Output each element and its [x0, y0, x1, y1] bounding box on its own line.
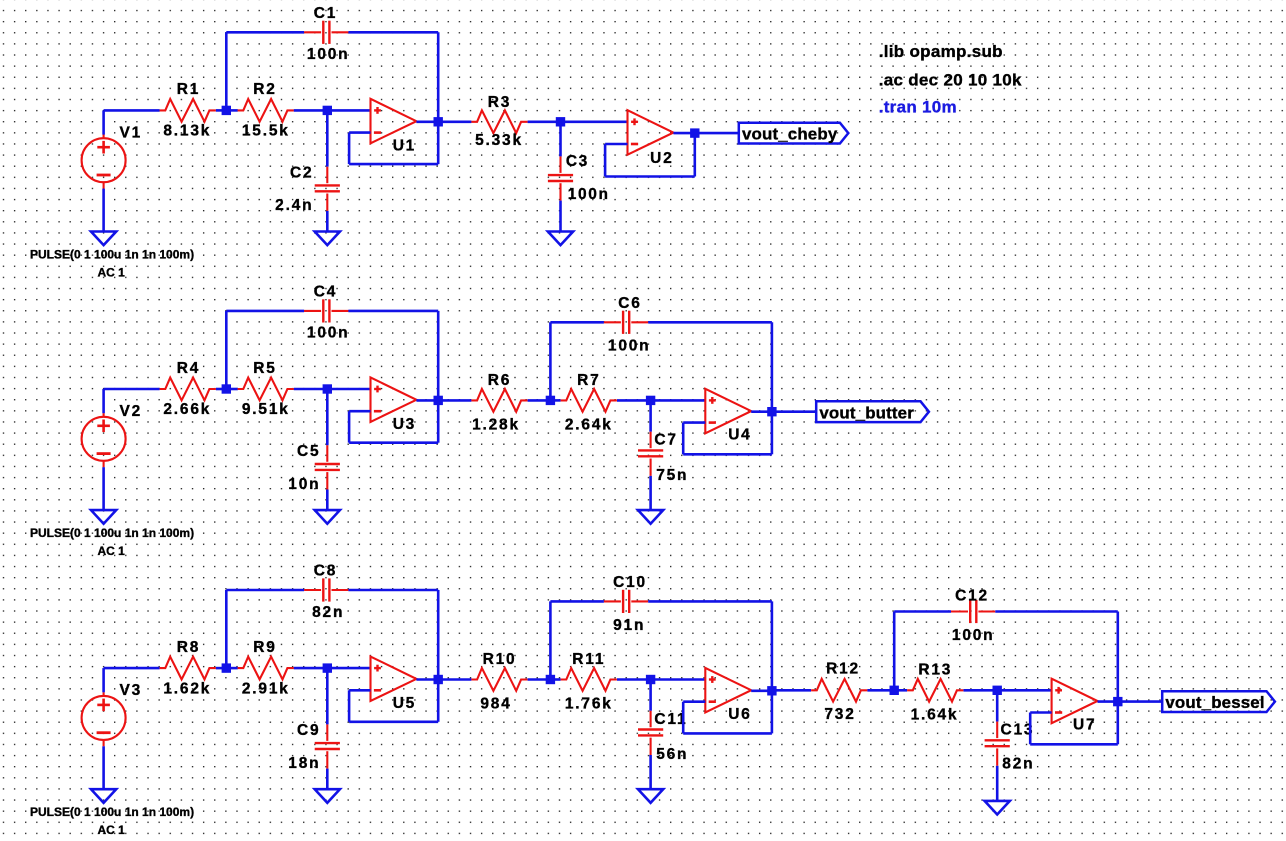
svg-text:R7: R7 — [577, 372, 600, 389]
svg-text:2.91k: 2.91k — [242, 680, 290, 697]
svg-text:R4: R4 — [177, 360, 200, 377]
svg-text:18n: 18n — [288, 755, 320, 772]
svg-text:vout_bessel: vout_bessel — [1165, 693, 1264, 712]
svg-text:R6: R6 — [488, 372, 511, 389]
svg-text:U4: U4 — [728, 427, 751, 444]
svg-text:PULSE(0 1 100u 1n 1n 100m): PULSE(0 1 100u 1n 1n 100m) — [30, 805, 194, 819]
svg-text:2.4n: 2.4n — [275, 197, 313, 214]
svg-text:V1: V1 — [120, 125, 143, 142]
svg-text:PULSE(0 1 100u 1n 1n 100m): PULSE(0 1 100u 1n 1n 100m) — [30, 526, 194, 540]
svg-text:PULSE(0 1 100u 1n 1n 100m): PULSE(0 1 100u 1n 1n 100m) — [30, 248, 194, 262]
svg-text:U5: U5 — [393, 695, 416, 712]
svg-text:1.28k: 1.28k — [472, 416, 520, 433]
svg-text:U7: U7 — [1073, 717, 1096, 734]
svg-text:C2: C2 — [290, 165, 313, 182]
svg-text:82n: 82n — [1002, 755, 1034, 772]
svg-text:75n: 75n — [656, 467, 688, 484]
svg-text:C5: C5 — [297, 443, 320, 460]
svg-text:C7: C7 — [654, 432, 677, 449]
svg-text:C9: C9 — [297, 722, 320, 739]
svg-text:R1: R1 — [177, 81, 200, 98]
svg-text:U3: U3 — [393, 416, 416, 433]
svg-text:82n: 82n — [312, 604, 344, 621]
svg-text:C1: C1 — [314, 5, 337, 22]
svg-text:U1: U1 — [393, 138, 416, 155]
svg-text:R12: R12 — [826, 660, 860, 677]
svg-text:R3: R3 — [488, 94, 511, 111]
svg-text:R5: R5 — [253, 360, 276, 377]
svg-text:.tran 10m: .tran 10m — [879, 98, 957, 117]
svg-text:100n: 100n — [307, 325, 350, 342]
svg-text:100n: 100n — [307, 46, 350, 63]
svg-text:9.51k: 9.51k — [242, 401, 290, 418]
svg-text:1.62k: 1.62k — [163, 680, 211, 697]
svg-text:5.33k: 5.33k — [475, 132, 523, 149]
svg-text:V2: V2 — [120, 403, 143, 420]
svg-text:1.64k: 1.64k — [911, 706, 959, 723]
svg-text:.ac dec 20 10 10k: .ac dec 20 10 10k — [879, 70, 1022, 89]
svg-text:vout_butter: vout_butter — [819, 403, 914, 422]
svg-text:R13: R13 — [918, 662, 952, 679]
svg-text:U2: U2 — [650, 150, 673, 167]
svg-text:100n: 100n — [608, 338, 651, 355]
svg-text:2.66k: 2.66k — [163, 401, 211, 418]
svg-text:R11: R11 — [572, 651, 605, 668]
svg-text:C12: C12 — [955, 587, 989, 604]
svg-text:732: 732 — [824, 706, 855, 723]
svg-text:AC 1: AC 1 — [98, 823, 126, 836]
svg-text:AC 1: AC 1 — [98, 544, 126, 558]
svg-text:R2: R2 — [253, 81, 276, 98]
svg-text:C10: C10 — [613, 574, 647, 591]
svg-text:15.5k: 15.5k — [242, 123, 290, 140]
svg-text:56n: 56n — [656, 746, 688, 763]
svg-text:100n: 100n — [568, 186, 610, 203]
svg-text:vout_cheby: vout_cheby — [742, 125, 838, 144]
svg-text:C4: C4 — [314, 283, 337, 300]
svg-text:R8: R8 — [177, 639, 200, 656]
svg-text:984: 984 — [480, 696, 511, 713]
svg-text:U6: U6 — [728, 706, 751, 723]
svg-text:8.13k: 8.13k — [163, 123, 211, 140]
svg-text:.lib opamp.sub: .lib opamp.sub — [879, 42, 1003, 61]
svg-text:10n: 10n — [288, 476, 320, 493]
svg-text:V3: V3 — [120, 682, 143, 699]
svg-text:2.64k: 2.64k — [565, 416, 613, 433]
svg-text:100n: 100n — [952, 627, 995, 644]
svg-text:AC 1: AC 1 — [98, 266, 126, 280]
svg-text:C3: C3 — [566, 153, 589, 170]
svg-text:R10: R10 — [483, 651, 517, 668]
svg-text:R9: R9 — [253, 639, 276, 656]
svg-text:C8: C8 — [314, 563, 337, 580]
svg-text:1.76k: 1.76k — [565, 696, 613, 713]
svg-text:C6: C6 — [618, 295, 641, 312]
svg-text:91n: 91n — [613, 617, 645, 634]
